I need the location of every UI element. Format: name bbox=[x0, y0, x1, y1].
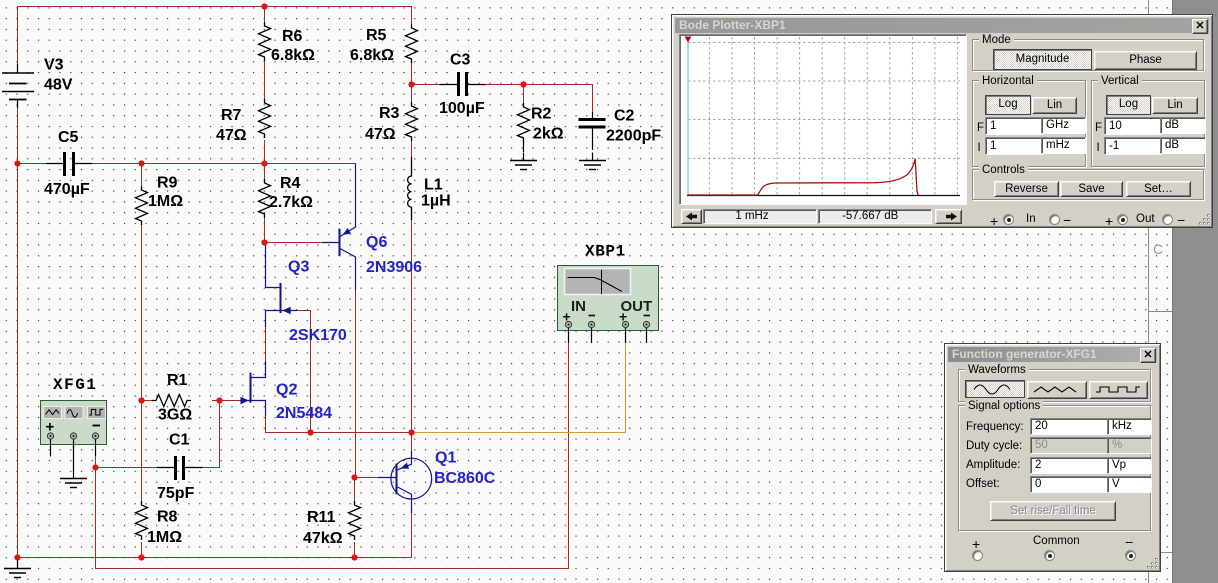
capacitor C5 bbox=[46, 152, 92, 176]
svg-text:R5: R5 bbox=[366, 27, 387, 44]
resistor R3 bbox=[406, 102, 418, 141]
svg-text:C2: C2 bbox=[614, 108, 635, 125]
resistor R9 bbox=[136, 186, 148, 225]
svg-text:48V: 48V bbox=[44, 77, 73, 94]
svg-text:Q2: Q2 bbox=[276, 382, 297, 399]
wire XFG1 node down along signal rail to XBP1 IN+ bbox=[96, 343, 569, 569]
wire R7 to mid rail bbox=[264, 140, 266, 164]
transistor Q3 2SK170 (JFET mirrored) bbox=[266, 243, 298, 327]
ground under R2 bbox=[510, 140, 537, 170]
junction node R8/ground rail bbox=[138, 554, 144, 560]
svg-text:C1: C1 bbox=[169, 432, 190, 449]
instrument symbol XFG1 (function generator) bbox=[41, 401, 107, 457]
svg-text:C5: C5 bbox=[58, 129, 79, 146]
wire mid rail V3/C5/R9/R7 to Q6 emitter bbox=[18, 164, 356, 228]
resistor R4 bbox=[259, 179, 271, 218]
svg-text:470µF: 470µF bbox=[44, 181, 90, 198]
transistor Q6 2N3906 (PNP) bbox=[322, 164, 356, 291]
svg-text:47Ω: 47Ω bbox=[365, 126, 396, 143]
wire R4 bottom to Q6 base node bbox=[264, 215, 266, 243]
svg-text:XFG1: XFG1 bbox=[53, 376, 97, 394]
transistor Q2 2N5484 (JFET) bbox=[240, 361, 266, 416]
junction node V3/mid rail bbox=[14, 160, 20, 166]
svg-text:1MΩ: 1MΩ bbox=[147, 529, 182, 546]
wire battery minus down to ground rail bbox=[17, 100, 19, 558]
svg-text:Q6: Q6 bbox=[366, 234, 387, 251]
instrument symbol XBP1 (bode plotter) bbox=[558, 266, 659, 344]
wire R6 top lead bbox=[264, 7, 266, 27]
wire Q6 base node to base bbox=[265, 242, 323, 244]
svg-text:Q1: Q1 bbox=[435, 450, 456, 467]
capacitor C3 bbox=[440, 72, 486, 96]
svg-text:V3: V3 bbox=[44, 57, 64, 74]
junction node R1/C1/Q2 gate bbox=[216, 397, 222, 403]
wire Q6 collector down to R11/Q1 base node bbox=[355, 289, 357, 478]
svg-text:R11: R11 bbox=[307, 509, 336, 526]
junction node R11/ground rail bbox=[351, 554, 357, 560]
junction node R4/Q6 base/Q3 drain bbox=[261, 239, 267, 245]
svg-text:C: C bbox=[1153, 241, 1163, 257]
sheet border frame bbox=[1149, 0, 1173, 583]
svg-text:47Ω: 47Ω bbox=[216, 127, 247, 144]
svg-text:100µF: 100µF bbox=[439, 100, 485, 117]
svg-text:R4: R4 bbox=[280, 175, 301, 192]
svg-text:3GΩ: 3GΩ bbox=[158, 407, 192, 424]
wire R1 left lead bbox=[142, 400, 155, 402]
ground under XFG1 common bbox=[60, 445, 87, 488]
svg-text:R6: R6 bbox=[282, 28, 303, 45]
resistor R2 bbox=[518, 103, 530, 142]
svg-text:R7: R7 bbox=[221, 107, 242, 124]
svg-text:IN: IN bbox=[571, 298, 586, 315]
junction node C3/R2 bbox=[520, 81, 526, 87]
wire R6-R7 bbox=[264, 59, 266, 101]
wire XFG1 minus to C1 left bbox=[96, 455, 175, 468]
resistor R11 bbox=[349, 501, 361, 540]
wire R3 top lead bbox=[411, 85, 413, 105]
wire R5 bottom to C3 node bbox=[411, 61, 413, 85]
inductor L1 bbox=[408, 157, 412, 220]
svg-text:2N3906: 2N3906 bbox=[366, 259, 422, 276]
junction node R5/C3/R3 bbox=[408, 81, 414, 87]
svg-text:2kΩ: 2kΩ bbox=[533, 126, 564, 143]
junction node XFG1 minus/C1 bbox=[92, 464, 98, 470]
wire R1 node down to R8 bbox=[141, 401, 143, 505]
wire C3 row: node-C3, C3-R2 node-C2 bbox=[412, 85, 593, 113]
transistor Q1 BC860C (PNP in circle) bbox=[378, 451, 432, 513]
junction node V3 minus/ground rail bbox=[14, 554, 20, 560]
ground at battery (bottom-left) bbox=[4, 561, 31, 578]
wire R4 top lead bbox=[264, 164, 266, 182]
wire ground rail (bottom) bbox=[18, 512, 412, 558]
junction node output (L1/Q1/XBP1) bbox=[408, 429, 414, 435]
wire orange: output node to XBP1 OUT+ bbox=[412, 343, 626, 433]
wire R11 bottom to ground rail bbox=[354, 542, 356, 558]
wire R11 node to Q1 base bbox=[355, 477, 393, 479]
wire R3 to L1 bbox=[411, 140, 413, 158]
junction node R9 top bbox=[138, 160, 144, 166]
junction node R6 top bbox=[261, 3, 267, 9]
resistor R8 bbox=[136, 501, 148, 540]
wire R11 top lead bbox=[355, 478, 356, 504]
wire R9 top lead bbox=[141, 164, 143, 190]
junction node R7/R4/mid rail bbox=[261, 160, 267, 166]
wire R1 right to Q2 gate bbox=[212, 400, 240, 402]
wire output node to Q1 emitter bbox=[411, 433, 413, 453]
svg-text:6.8kΩ: 6.8kΩ bbox=[271, 47, 315, 64]
wire R9 bottom to R1 node bbox=[141, 222, 143, 401]
svg-text:1MΩ: 1MΩ bbox=[148, 193, 183, 210]
svg-text:L1: L1 bbox=[424, 177, 443, 194]
svg-text:6.8kΩ: 6.8kΩ bbox=[350, 47, 394, 64]
svg-text:2SK170: 2SK170 bbox=[289, 327, 347, 344]
svg-text:C3: C3 bbox=[450, 52, 471, 69]
wire Q3 source to Q2 drain bbox=[265, 326, 267, 362]
svg-text:BC860C: BC860C bbox=[434, 470, 496, 487]
wire R8 bottom to ground rail bbox=[141, 542, 143, 558]
junction node Q3 gate/source row bbox=[307, 429, 313, 435]
wire V+ top rail from V3 to R5 bbox=[18, 7, 412, 74]
junction node R9/R1 bbox=[138, 397, 144, 403]
wire R2 top lead bbox=[523, 85, 525, 106]
svg-text:2200pF: 2200pF bbox=[606, 128, 661, 145]
svg-text:Q3: Q3 bbox=[288, 259, 309, 276]
capacitor C1 bbox=[157, 456, 203, 480]
svg-text:R2: R2 bbox=[531, 106, 552, 123]
svg-text:2N5484: 2N5484 bbox=[276, 405, 332, 422]
resistor R7 bbox=[259, 99, 271, 138]
wire R1 right node down to C1 right bbox=[187, 401, 220, 468]
svg-text:XBP1: XBP1 bbox=[585, 243, 626, 261]
battery V3 bbox=[2, 64, 34, 108]
svg-text:2.7kΩ: 2.7kΩ bbox=[269, 194, 313, 211]
resistor R6 bbox=[259, 22, 271, 61]
resistor R1 bbox=[152, 395, 191, 407]
svg-text:75pF: 75pF bbox=[157, 485, 195, 502]
GRAY_RIGHT bbox=[1172, 0, 1218, 583]
ground under C2 bbox=[579, 153, 606, 170]
svg-text:1µH: 1µH bbox=[421, 193, 451, 210]
junction node Q6 collector/R11/Q1 base bbox=[351, 474, 357, 480]
svg-text:R1: R1 bbox=[167, 372, 188, 389]
svg-text:R8: R8 bbox=[157, 509, 178, 526]
wire source row: Q2 source to output node bbox=[266, 415, 412, 433]
svg-text:R9: R9 bbox=[157, 175, 178, 192]
wire L1 bottom to output node bbox=[411, 219, 413, 433]
wire Q3 gate down to source row bbox=[297, 311, 311, 433]
svg-text:47kΩ: 47kΩ bbox=[303, 530, 343, 547]
svg-text:R3: R3 bbox=[379, 105, 400, 122]
resistor R5 bbox=[406, 24, 418, 63]
capacitor C2 (horizontal plates) bbox=[579, 112, 606, 150]
